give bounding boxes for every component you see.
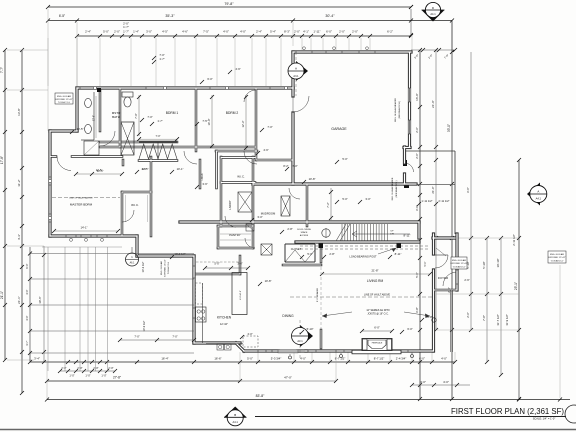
svg-text:A4.1: A4.1 <box>536 196 542 200</box>
svg-text:2'-4": 2'-4" <box>85 30 91 34</box>
svg-text:10'-8": 10'-8" <box>265 279 272 283</box>
svg-text:2'-0": 2'-0" <box>108 366 113 370</box>
svg-text:7'-0": 7'-0" <box>159 53 164 57</box>
svg-text:5'-1": 5'-1" <box>424 261 427 266</box>
svg-text:UP: UP <box>390 231 394 233</box>
svg-text:2'-4 3/4": 2'-4 3/4" <box>396 357 407 361</box>
svg-text:2'-0": 2'-0" <box>352 30 358 34</box>
svg-text:2'-6": 2'-6" <box>415 127 419 133</box>
svg-text:3'-0": 3'-0" <box>257 215 262 219</box>
svg-text:7'-5": 7'-5" <box>203 30 209 34</box>
svg-text:7'-0": 7'-0" <box>267 125 272 129</box>
svg-text:ENG. GLULAM: ENG. GLULAM <box>452 259 466 262</box>
svg-text:1'-0": 1'-0" <box>85 374 90 378</box>
svg-text:4'-1": 4'-1" <box>303 30 309 34</box>
svg-text:12'-5": 12'-5" <box>142 167 149 171</box>
svg-text:16'-0": 16'-0" <box>415 93 419 101</box>
svg-text:4'-0": 4'-0" <box>443 380 449 384</box>
svg-text:7'-0": 7'-0" <box>134 335 139 339</box>
svg-text:21'-1": 21'-1" <box>0 291 4 299</box>
svg-text:EXPOSED 12"x12": EXPOSED 12"x12" <box>548 257 565 259</box>
svg-text:1'-7": 1'-7" <box>123 30 129 34</box>
svg-text:KITCHEN: KITCHEN <box>217 316 232 320</box>
svg-text:2'-11 1/2": 2'-11 1/2" <box>512 234 516 246</box>
svg-text:SOLID OVERH: SOLID OVERH <box>297 229 311 231</box>
svg-text:4'-5": 4'-5" <box>162 30 168 34</box>
svg-text:7'-2": 7'-2" <box>326 202 330 207</box>
svg-text:27'-8": 27'-8" <box>113 376 121 380</box>
svg-text:SCALE: 1/4" = 1'-0": SCALE: 1/4" = 1'-0" <box>533 417 556 421</box>
svg-text:6'-0": 6'-0" <box>407 327 412 331</box>
svg-text:2'-11 1/2": 2'-11 1/2" <box>438 199 449 203</box>
svg-text:2'-0": 2'-0" <box>61 366 66 370</box>
svg-text:10'-3 1/2": 10'-3 1/2" <box>174 252 185 256</box>
svg-text:5'-0": 5'-0" <box>103 30 109 34</box>
svg-text:LINEN: LINEN <box>201 173 204 180</box>
svg-text:8'-2": 8'-2" <box>283 164 288 168</box>
svg-text:PANTRY: PANTRY <box>229 233 241 237</box>
svg-text:5'-3 3/4": 5'-3 3/4" <box>271 357 282 361</box>
svg-text:4'-0"x8'-0": 4'-0"x8'-0" <box>240 290 242 300</box>
svg-text:USE OF VAULT ABOVE: USE OF VAULT ABOVE <box>69 197 93 200</box>
svg-text:10'-3 1/2": 10'-3 1/2" <box>141 261 145 272</box>
svg-text:10'-10": 10'-10" <box>496 259 500 268</box>
svg-text:5'-0": 5'-0" <box>214 262 219 266</box>
svg-text:6'-8": 6'-8" <box>427 315 432 319</box>
svg-text:11'-9 1/2": 11'-9 1/2" <box>505 314 509 326</box>
svg-text:A4.1: A4.1 <box>233 420 239 424</box>
svg-text:16'-4": 16'-4" <box>161 357 168 361</box>
svg-text:4'-6": 4'-6" <box>235 67 240 71</box>
svg-text:LOAD BEARING POST: LOAD BEARING POST <box>349 255 377 259</box>
svg-text:12'-5": 12'-5" <box>93 115 96 121</box>
svg-text:17'-8": 17'-8" <box>0 156 4 164</box>
svg-text:ACCESS: ACCESS <box>300 234 309 237</box>
svg-text:ENG. GLULAM HEADER: ENG. GLULAM HEADER <box>391 177 394 200</box>
svg-text:4'-0": 4'-0" <box>247 332 252 336</box>
svg-text:8'-11": 8'-11" <box>404 234 411 238</box>
svg-text:2'-8": 2'-8" <box>329 252 334 256</box>
svg-text:7'-7": 7'-7" <box>0 67 4 73</box>
svg-text:21'-8": 21'-8" <box>371 269 378 273</box>
svg-text:2'-8": 2'-8" <box>287 227 292 231</box>
svg-text:21'-0": 21'-0" <box>431 100 435 108</box>
svg-text:W.I.C.: W.I.C. <box>237 175 245 179</box>
svg-text:1'-11": 1'-11" <box>313 30 320 34</box>
svg-text:W.I.C.: W.I.C. <box>131 203 139 207</box>
svg-text:ENG. GLULAM: ENG. GLULAM <box>160 261 163 275</box>
svg-text:11'-7 1/2": 11'-7 1/2" <box>496 314 500 326</box>
svg-text:4'-0": 4'-0" <box>240 30 246 34</box>
svg-text:4'-0": 4'-0" <box>441 357 447 361</box>
svg-text:10'-8": 10'-8" <box>309 177 316 181</box>
svg-text:8'-11": 8'-11" <box>395 252 402 256</box>
svg-text:6'-0": 6'-0" <box>207 77 212 81</box>
svg-text:30'-4": 30'-4" <box>325 14 335 18</box>
svg-text:2'-0": 2'-0" <box>114 30 120 34</box>
svg-text:10'-9 1/2": 10'-9 1/2" <box>142 320 146 331</box>
svg-text:BDRM 2: BDRM 2 <box>226 111 239 115</box>
svg-text:25'-1": 25'-1" <box>514 282 518 290</box>
svg-text:A: A <box>295 67 297 71</box>
svg-text:7'-0": 7'-0" <box>156 135 161 138</box>
svg-text:T.O.B.AT10'-0": T.O.B.AT10'-0" <box>452 266 465 269</box>
svg-text:FIREPLACE: FIREPLACE <box>372 342 383 345</box>
svg-text:6'-0": 6'-0" <box>466 187 470 193</box>
svg-text:7'-5": 7'-5" <box>202 119 207 123</box>
svg-text:5'-0": 5'-0" <box>307 252 312 256</box>
svg-text:5'-4": 5'-4" <box>270 30 276 34</box>
svg-text:MASTER BDRM: MASTER BDRM <box>70 203 93 207</box>
svg-text:47'-0": 47'-0" <box>284 376 292 380</box>
svg-text:1'-7": 1'-7" <box>157 119 162 123</box>
svg-text:T.O.B.AT10'-0": T.O.B.AT10'-0" <box>550 260 563 263</box>
svg-text:5'-10": 5'-10" <box>307 327 314 331</box>
svg-text:10'-5": 10'-5" <box>97 169 104 173</box>
svg-text:1'-7": 1'-7" <box>123 25 129 29</box>
svg-text:FIRST FLOOR PLAN (2,361 SF): FIRST FLOOR PLAN (2,361 SF) <box>451 407 564 416</box>
svg-text:6'-8": 6'-8" <box>415 307 419 313</box>
svg-text:16'-6": 16'-6" <box>214 357 221 361</box>
svg-text:10'-5": 10'-5" <box>77 127 84 131</box>
svg-text:6'-0": 6'-0" <box>419 357 425 361</box>
svg-text:4'-0": 4'-0" <box>223 30 229 34</box>
svg-text:10'-1": 10'-1" <box>177 167 184 171</box>
svg-text:B: B <box>234 413 236 417</box>
svg-text:6'-0": 6'-0" <box>326 30 332 34</box>
svg-text:BATH: BATH <box>112 115 120 119</box>
svg-text:8'-7 1/2": 8'-7 1/2" <box>374 357 385 361</box>
svg-text:JOISTS @ 16" O.C.: JOISTS @ 16" O.C. <box>367 313 389 316</box>
svg-text:6'-0": 6'-0" <box>25 263 29 268</box>
svg-text:GARAGE: GARAGE <box>331 127 347 131</box>
svg-text:11'-2": 11'-2" <box>17 179 21 186</box>
svg-text:SPACE: SPACE <box>301 231 308 234</box>
svg-text:(SEE BEAM SCH.): (SEE BEAM SCH.) <box>398 101 401 119</box>
svg-text:2'-0": 2'-0" <box>339 30 345 34</box>
svg-text:3'-0": 3'-0" <box>146 30 152 34</box>
svg-text:ENG. GLULAM HEADER: ENG. GLULAM HEADER <box>394 98 397 122</box>
svg-text:CLOSET: CLOSET <box>291 247 302 251</box>
svg-text:3'-0": 3'-0" <box>237 262 242 266</box>
svg-text:EXPOSED 12"x12": EXPOSED 12"x12" <box>55 99 72 101</box>
svg-text:6'-0": 6'-0" <box>374 326 380 330</box>
svg-text:7'-8": 7'-8" <box>482 315 486 321</box>
svg-text:33'-0": 33'-0" <box>447 124 451 132</box>
svg-text:LINE OF VAULT ABOVE: LINE OF VAULT ABOVE <box>364 294 390 297</box>
svg-text:4'-3": 4'-3" <box>17 234 21 240</box>
svg-text:EXPOSED 12"x12": EXPOSED 12"x12" <box>165 259 167 276</box>
svg-text:EXPOSED 12"x12": EXPOSED 12"x12" <box>450 263 467 265</box>
svg-text:8'-0" HEADER: 8'-0" HEADER <box>316 288 319 303</box>
svg-text:5'-0": 5'-0" <box>342 197 347 201</box>
svg-text:3'-4": 3'-4" <box>34 357 40 361</box>
svg-text:83'-8": 83'-8" <box>256 394 265 398</box>
svg-text:LIVING RM: LIVING RM <box>367 279 384 283</box>
svg-text:T.O.B.A.T.O.L: T.O.B.A.T.O.L <box>167 261 170 274</box>
svg-text:1'-4": 1'-4" <box>133 30 139 34</box>
svg-text:21'-0": 21'-0" <box>431 186 435 193</box>
svg-text:A3.1: A3.1 <box>293 75 299 78</box>
svg-text:4'-0": 4'-0" <box>300 357 306 361</box>
svg-text:3'-7": 3'-7" <box>25 340 29 345</box>
svg-text:17R: 17R <box>390 234 394 236</box>
svg-text:4'-6": 4'-6" <box>182 30 188 34</box>
svg-text:5'-0": 5'-0" <box>247 357 253 361</box>
svg-text:ENG. GLULAM: ENG. GLULAM <box>57 95 71 98</box>
svg-text:A4.1: A4.1 <box>430 12 436 16</box>
svg-text:12'-10": 12'-10" <box>220 322 228 326</box>
svg-text:2'-6": 2'-6" <box>464 278 469 282</box>
svg-text:10'-6": 10'-6" <box>38 296 42 303</box>
svg-text:2'-0": 2'-0" <box>415 153 419 159</box>
svg-text:T.O.B.A.T.O.L: T.O.B.A.T.O.L <box>58 101 71 104</box>
svg-text:79'-8": 79'-8" <box>224 2 234 6</box>
svg-text:13'-8": 13'-8" <box>17 108 21 116</box>
svg-text:4'-6": 4'-6" <box>263 148 268 152</box>
svg-text:3'-0": 3'-0" <box>365 197 370 201</box>
svg-text:5'-0": 5'-0" <box>342 157 347 161</box>
svg-text:8'-3": 8'-3" <box>284 30 290 34</box>
svg-text:6'-5": 6'-5" <box>59 14 65 18</box>
svg-text:4'-0": 4'-0" <box>420 380 426 384</box>
svg-text:2'-0": 2'-0" <box>93 366 98 370</box>
svg-text:7'-0": 7'-0" <box>292 164 297 168</box>
svg-text:4'-0": 4'-0" <box>25 289 29 294</box>
svg-text:LNDRY: LNDRY <box>228 200 232 210</box>
svg-text:A6.1: A6.1 <box>130 262 135 265</box>
svg-text:1'-0": 1'-0" <box>101 374 106 378</box>
svg-text:5'-0": 5'-0" <box>415 272 419 278</box>
svg-text:1'-7": 1'-7" <box>159 57 164 61</box>
svg-text:7'-0": 7'-0" <box>134 113 138 118</box>
svg-text:A: A <box>537 190 539 194</box>
svg-text:2'-4": 2'-4" <box>256 30 262 34</box>
svg-text:35'-3": 35'-3" <box>165 14 175 18</box>
svg-text:7'-0": 7'-0" <box>147 115 152 119</box>
svg-text:7'-0": 7'-0" <box>172 335 177 339</box>
svg-text:6'-2": 6'-2" <box>387 30 393 34</box>
svg-text:MUDROOM: MUDROOM <box>261 212 276 216</box>
svg-text:D: D <box>432 6 434 10</box>
svg-text:1'-11 1/2": 1'-11 1/2" <box>421 199 432 203</box>
svg-text:A3.1: A3.1 <box>297 339 303 343</box>
svg-text:1'-0": 1'-0" <box>69 374 74 378</box>
svg-text:2'-6": 2'-6" <box>466 312 470 318</box>
svg-text:BDRM 1: BDRM 1 <box>166 111 179 115</box>
svg-text:2'-0": 2'-0" <box>294 30 300 34</box>
svg-text:3'-6": 3'-6" <box>202 182 207 186</box>
svg-text:21'-1": 21'-1" <box>17 296 21 304</box>
svg-text:FOYER: FOYER <box>438 276 449 280</box>
svg-text:6'-0": 6'-0" <box>415 205 419 211</box>
svg-text:DINING: DINING <box>282 314 294 318</box>
svg-text:(SEE BEAM SCH.): (SEE BEAM SCH.) <box>395 180 398 197</box>
svg-text:ENG. GLULAM: ENG. GLULAM <box>550 253 564 256</box>
svg-text:12'-3": 12'-3" <box>241 121 245 128</box>
svg-text:5'-10": 5'-10" <box>482 261 486 268</box>
svg-text:14'-1": 14'-1" <box>80 226 87 230</box>
svg-text:4'-0": 4'-0" <box>25 315 29 320</box>
